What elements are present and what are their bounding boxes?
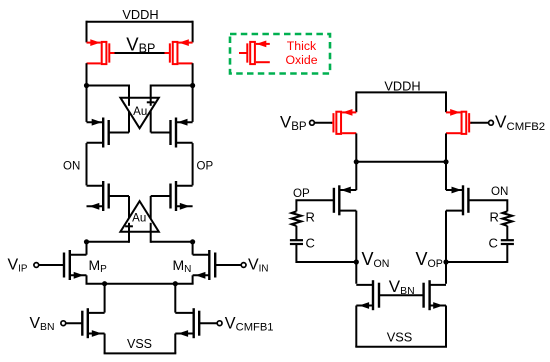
wire MP gate wire	[39, 264, 64, 266]
wire tail right drop	[174, 284, 176, 313]
transistor CMFB thick-oxide PMOS right (VCMFB2)	[446, 111, 461, 113]
wire VOP vertical	[445, 211, 447, 284]
capacitor C (right)	[501, 239, 514, 241]
wire right mirror drop (right)	[445, 133, 447, 161]
transistor CMFB NMOS left (VBN)	[372, 280, 374, 310]
terminal VBP (right)	[310, 120, 315, 125]
svg-text:VSS: VSS	[127, 337, 152, 351]
wire R to C (right)	[506, 226, 508, 240]
op-amp U1 plus sign	[147, 101, 155, 103]
junction VOP RC tap	[443, 259, 448, 264]
wire ON gate wire to RC	[468, 200, 507, 211]
svg-text:VOP: VOP	[416, 249, 443, 270]
wire VBP gate wire (right)	[314, 122, 332, 124]
wire boost amp U1 output to right cascode gate	[150, 108, 152, 133]
wire right branch to cascode source	[192, 85, 194, 122]
op-amp U2 minus input wire	[150, 223, 152, 243]
transistor CMFB NMOS right (VBN)	[428, 280, 430, 310]
wire VSS rail (right circuit)	[355, 346, 447, 348]
terminal VCMFB2	[489, 120, 494, 125]
svg-text:VBN: VBN	[389, 277, 415, 297]
wire VBP gate wire	[115, 52, 165, 54]
transistor cascode PMOS right (row1)	[175, 118, 177, 148]
wire VDDH rail right drop	[192, 21, 194, 43]
transistor CMFB PMOS left (gate OP)	[338, 185, 340, 215]
svg-text:R: R	[490, 210, 499, 225]
junction right cascode node	[190, 83, 195, 88]
wire VDDH rail right drop (right)	[445, 91, 447, 112]
junction left cascode node	[84, 83, 89, 88]
svg-text:Au: Au	[133, 106, 147, 118]
junction VON RC tap	[354, 259, 359, 264]
terminal VBN (left)	[61, 321, 66, 326]
wire node OP vertical	[192, 143, 194, 185]
op-amp U2 plus input wire	[128, 223, 130, 243]
op-amp U1 plus input wire	[150, 85, 152, 106]
capacitor C (left)	[290, 239, 303, 241]
wire C to VON node	[296, 244, 356, 262]
wire right lower node	[151, 241, 193, 243]
svg-text:Thick: Thick	[287, 39, 317, 53]
legend box (thick oxide, green dashed)	[230, 34, 330, 74]
wire VSS rail (left circuit)	[104, 352, 177, 354]
svg-text:ON: ON	[491, 185, 508, 198]
wire mirror node (right)	[356, 161, 446, 163]
transistor CMFB PMOS right (gate ON)	[462, 185, 464, 215]
wire VDDH rail left drop	[86, 21, 88, 43]
wire left branch to cascode source	[86, 85, 88, 122]
op-amp U1 (gain-boost Au, top)	[120, 98, 158, 129]
op-amp U2 plus sign	[125, 225, 133, 227]
wire left lower node	[87, 241, 130, 243]
wire right cascode node	[151, 85, 193, 87]
wire boost amp U2 output to left cascode gate	[128, 196, 130, 222]
transistor MP (input NMOS left)	[69, 250, 71, 280]
svg-text:VIN: VIN	[248, 257, 268, 275]
resistor R (left)	[292, 211, 302, 226]
wire MP source corner	[86, 275, 88, 283]
transistor cascode PMOS left (row1)	[102, 118, 104, 148]
wire boost amp U1 output to left cascode gate	[128, 108, 130, 133]
terminal VCMFB1	[217, 321, 222, 326]
svg-text:VSS: VSS	[387, 329, 413, 344]
wire tail node	[86, 283, 194, 285]
transistor M-thick-left (red thick-oxide PMOS, left)	[87, 42, 101, 44]
junction tail right	[173, 281, 178, 286]
svg-text:MN: MN	[173, 257, 192, 275]
wire VSS left drop (right)	[355, 306, 357, 347]
wire right branch drain drop	[192, 63, 194, 85]
wire C to VOP node	[446, 244, 507, 262]
svg-text:OP: OP	[197, 161, 214, 173]
wire node ON vertical	[86, 143, 88, 185]
junction mirror node right	[443, 159, 448, 164]
wire mirror to PMOS source left	[355, 162, 357, 190]
wire VCMFB1 gate wire	[199, 322, 217, 324]
svg-text:OP: OP	[293, 187, 310, 200]
wire left mirror drop (right)	[355, 133, 357, 161]
transistor MN (input NMOS right)	[208, 250, 210, 280]
wire mirror to PMOS source right	[445, 162, 447, 190]
junction mirror node left	[354, 159, 359, 164]
wire VBN gate wire (right)	[379, 294, 424, 296]
transistor CMFB thick-oxide PMOS left (VBP)	[342, 111, 356, 113]
svg-text:VDDH: VDDH	[384, 79, 420, 94]
junction tail left	[102, 281, 107, 286]
terminal VIP	[34, 263, 39, 268]
wire MN gate wire	[215, 264, 241, 266]
svg-text:VIP: VIP	[8, 257, 28, 275]
wire left cascode node	[87, 85, 130, 87]
svg-text:VCMFB1: VCMFB1	[225, 314, 274, 333]
wire MP drain drop	[86, 242, 88, 255]
op-amp U1 minus input wire	[128, 85, 130, 106]
wire tail left drop	[104, 284, 106, 313]
wire VDDH rail (right)	[356, 91, 446, 93]
wire OP gate wire to RC	[296, 200, 334, 211]
op-amp U2 (gain-boost Au, bottom)	[120, 201, 158, 232]
wire VCMFB2 gate wire	[471, 122, 489, 124]
legend thick-oxide transistor symbol	[239, 52, 247, 54]
svg-text:VCMFB2: VCMFB2	[495, 112, 545, 133]
transistor tail NMOS left (VBN)	[87, 308, 89, 338]
svg-text:C: C	[306, 236, 315, 251]
svg-text:MP: MP	[89, 257, 108, 275]
wire VSS left drop	[104, 334, 106, 354]
resistor R (right)	[503, 211, 513, 226]
wire VON vertical	[355, 211, 357, 284]
transistor tail NMOS right (VCMFB1)	[192, 308, 194, 338]
svg-text:Au: Au	[132, 213, 146, 225]
wire VDDH rail (left)	[87, 21, 193, 23]
svg-text:C: C	[489, 236, 498, 251]
svg-text:R: R	[306, 210, 315, 225]
wire boost amp U2 output to right cascode gate	[150, 196, 152, 222]
wire VBN gate wire (left)	[66, 322, 83, 324]
svg-text:Oxide: Oxide	[285, 53, 317, 67]
svg-text:VBP: VBP	[126, 33, 155, 55]
wire MN drain drop	[192, 242, 194, 255]
wire VSS right drop (right)	[445, 306, 447, 347]
svg-text:VBP: VBP	[280, 113, 307, 133]
svg-text:VDDH: VDDH	[122, 7, 158, 22]
wire VSS right drop	[174, 334, 176, 354]
svg-text:ON: ON	[63, 161, 80, 173]
terminal VIN	[241, 263, 246, 268]
wire VDDH rail left drop (right)	[355, 91, 357, 112]
junction left lower node	[84, 239, 89, 244]
svg-text:VBN: VBN	[30, 315, 55, 333]
transistor cascode NMOS left (row2)	[102, 181, 104, 211]
wire R to C (left)	[295, 226, 297, 240]
wire MN source corner	[192, 275, 194, 283]
junction right lower node	[190, 239, 195, 244]
transistor M-thick-right (red thick-oxide PMOS, right)	[178, 42, 192, 44]
svg-text:VON: VON	[362, 249, 390, 270]
wire left branch drain drop	[86, 63, 88, 85]
transistor cascode NMOS right (row2)	[175, 181, 177, 211]
